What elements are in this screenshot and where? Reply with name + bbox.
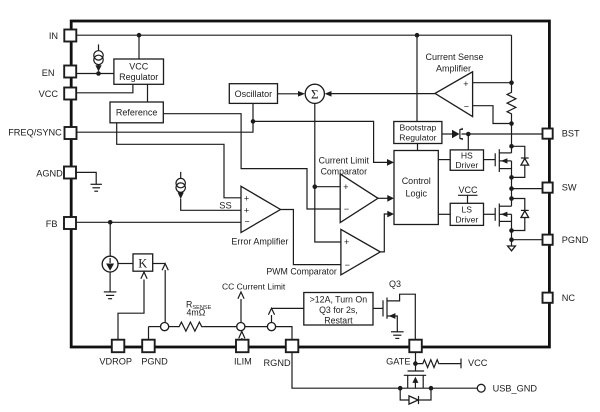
resistor current sense (507, 83, 516, 124)
wire summer to comparators (315, 103, 341, 242)
Reference block (110, 102, 163, 123)
op-amp error amplifier (241, 186, 281, 232)
svg-text:VCC: VCC (459, 185, 479, 195)
diode bootstrap (schottky) (452, 128, 462, 140)
wire sense rail (149, 326, 161, 328)
diode HS body (512, 146, 529, 177)
svg-text:GATE: GATE (386, 356, 410, 366)
summer sigma (305, 84, 324, 103)
node LS drain junction (509, 196, 514, 201)
svg-text:NC: NC (562, 293, 576, 303)
wire clock to control logic (253, 121, 387, 162)
terminal VCC bar (460, 359, 462, 369)
node gate junction (413, 361, 418, 366)
node SW junction (509, 186, 514, 191)
wire ILIM pin arrow (239, 331, 245, 339)
pin VCC (39, 88, 77, 100)
resistor RSENSE (178, 322, 204, 331)
svg-text:+: + (463, 79, 468, 89)
wire RGND to USB rail (292, 352, 477, 388)
wire LS driver to gate (484, 213, 496, 215)
op-amp current sense amplifier (435, 72, 473, 117)
svg-text:Reference: Reference (116, 108, 158, 118)
pin PGND right (543, 235, 589, 245)
svg-text:Q3: Q3 (389, 279, 401, 289)
wire PWM output arrow (380, 211, 394, 252)
resistor gate pull-up (415, 360, 439, 368)
Oscillator block (229, 84, 277, 104)
node FB junction (108, 220, 113, 225)
wire rail segment 3 (204, 326, 237, 328)
ground AGND (91, 184, 102, 191)
pin NC (543, 293, 576, 303)
ground Q3 source (391, 332, 404, 339)
wire rail to RGND (276, 327, 292, 340)
svg-text:Current Limit: Current Limit (319, 156, 370, 166)
svg-text:VCC: VCC (468, 358, 488, 368)
svg-text:Q3 for 2s,: Q3 for 2s, (319, 305, 358, 315)
svg-text:−: − (344, 204, 349, 214)
node clock junction (251, 119, 256, 124)
svg-text:K: K (138, 256, 147, 270)
wire FB to error amplifier (76, 221, 241, 223)
wire sense to HS drain (511, 124, 513, 153)
node terminal 2 (ILIM) (237, 323, 245, 331)
node HS drain junction (509, 144, 514, 149)
wire CL to HS driver (438, 159, 450, 161)
transistor HS MOSFET (495, 149, 511, 177)
svg-text:−: − (345, 260, 350, 270)
diode LS body (512, 199, 529, 231)
node terminal 3 (267, 323, 275, 331)
label VCC LS supply (458, 185, 478, 204)
wire resistor to VCC bar (439, 363, 461, 365)
svg-text:SW: SW (562, 183, 577, 193)
pin PGND bottom (141, 340, 168, 367)
HS Driver block (450, 150, 483, 170)
comparator PWM (341, 229, 380, 275)
svg-text:>12A, Turn On: >12A, Turn On (310, 295, 368, 305)
svg-text:VCC: VCC (39, 89, 59, 99)
wire SS to error amplifier (181, 199, 241, 211)
svg-text:−: − (245, 217, 250, 227)
terminal USB_GND (477, 383, 537, 393)
node HS source junction (509, 175, 514, 180)
wire VCCreg input (138, 35, 140, 59)
pin FB (46, 217, 76, 229)
Control Logic block (394, 151, 438, 225)
pin EN (42, 66, 76, 79)
node summer branch (313, 184, 318, 189)
pin FREQ/SYNC (8, 127, 76, 139)
transistor Q3 (383, 294, 415, 340)
svg-text:ILIM: ILIM (234, 356, 252, 366)
svg-text:Driver: Driver (455, 214, 478, 224)
svg-text:Σ: Σ (311, 86, 319, 101)
label Current Sense Amplifier (425, 52, 483, 73)
svg-text:CC Current Limit: CC Current Limit (222, 282, 286, 292)
svg-text:Oscillator: Oscillator (235, 89, 273, 99)
wire current source to K (118, 263, 133, 265)
wire tap to Q3 logic box (272, 307, 304, 309)
svg-text:Driver: Driver (455, 160, 478, 170)
pin VDROP (99, 340, 132, 367)
svg-text:PWM Comparator: PWM Comparator (266, 267, 336, 277)
node IN-bootstrap junction (415, 33, 420, 38)
svg-text:Bootstrap: Bootstrap (400, 123, 437, 133)
ground LS source (508, 246, 516, 251)
node terminal 1 (161, 323, 169, 331)
current source I-SS (176, 172, 185, 199)
arrow over-current tap (268, 308, 274, 322)
comparator current limit (340, 174, 378, 223)
pin ILIM (234, 340, 252, 367)
IC boundary (71, 21, 549, 347)
svg-text:+: + (244, 205, 249, 215)
LS Driver block (450, 203, 483, 225)
wire CSA minus input (473, 106, 512, 124)
K block (133, 254, 153, 271)
wire CL to LS driver (438, 213, 450, 215)
svg-text:FREQ/SYNC: FREQ/SYNC (8, 128, 62, 138)
wire current source to ground (109, 272, 111, 292)
svg-text:Amplifier: Amplifier (436, 63, 471, 73)
svg-text:BST: BST (562, 129, 580, 139)
wire K output to sense tap (153, 263, 166, 265)
svg-text:SS: SS (219, 201, 231, 211)
wire CLC output arrow (378, 195, 394, 202)
wire Reference to current-limit comparator (163, 114, 340, 209)
svg-text:LS: LS (462, 205, 473, 215)
wire IN net (76, 35, 511, 82)
svg-text:RGND: RGND (264, 358, 291, 368)
svg-text:AGND: AGND (36, 168, 63, 178)
wire rail segment 2 (169, 326, 178, 328)
wire Reference to error amplifier (117, 123, 241, 198)
svg-text:Logic: Logic (405, 189, 427, 199)
VCC Regulator U-vccreg (114, 59, 164, 84)
wire GATE pin to external gate node (415, 352, 417, 371)
arrow CC current limit (238, 292, 244, 322)
wire AGND pin (76, 172, 96, 184)
svg-text:+: + (244, 193, 249, 203)
svg-text:Regulator: Regulator (119, 72, 158, 82)
wire EN net (76, 73, 114, 75)
svg-text:+: + (344, 237, 349, 247)
svg-text:HS: HS (461, 151, 473, 161)
wire CSA output to summer (332, 93, 436, 95)
svg-text:PGND: PGND (141, 356, 168, 366)
wire bootstrap input (416, 35, 418, 121)
svg-text:VDROP: VDROP (99, 356, 132, 366)
node EN junction (96, 71, 101, 76)
node PGND junction (509, 237, 514, 242)
svg-text:EN: EN (42, 68, 55, 78)
node CSA minus junction (509, 121, 514, 126)
Bootstrap Regulator block (394, 122, 442, 144)
wire to CLC plus input (315, 186, 340, 188)
svg-text:USB_GND: USB_GND (493, 383, 538, 393)
wire HS driver to gate (484, 159, 496, 161)
svg-text:VCC: VCC (129, 62, 149, 72)
svg-text:Regulator: Regulator (399, 133, 436, 143)
wire PGND net (512, 231, 543, 247)
wire diode to BST pin (462, 133, 543, 135)
svg-text:4mΩ: 4mΩ (187, 308, 206, 318)
block Q3 restart logic (304, 293, 373, 326)
current source I-FB (102, 222, 118, 272)
wire to HS driver top (467, 134, 469, 150)
wire oscillator to summer (278, 93, 300, 95)
node USB rail right (429, 386, 434, 391)
wire VCC pin to regulator (76, 84, 133, 93)
arrow sense tap up (162, 264, 168, 323)
label Current Limit Comparator (319, 156, 370, 177)
svg-text:+: + (343, 182, 348, 192)
svg-text:PGND: PGND (562, 235, 589, 245)
wire box to Q3 gate (373, 307, 383, 309)
node USB rail left (398, 386, 403, 391)
node BST-HSdriver junction (466, 132, 471, 137)
wire bootstrap to BST (442, 133, 452, 135)
transistor external USB FET (404, 371, 426, 388)
node IN-VCCreg junction (137, 33, 142, 38)
svg-text:Error Amplifier: Error Amplifier (231, 236, 288, 246)
svg-text:Control: Control (402, 176, 431, 186)
svg-text:FB: FB (46, 219, 58, 229)
node LS source junction (509, 228, 514, 233)
pin SW (543, 183, 577, 193)
node CSA plus junction (509, 80, 514, 85)
svg-text:Restart: Restart (324, 316, 353, 326)
wire error amp out to PWM comparator (281, 210, 341, 265)
wire rail segment 4 (245, 326, 268, 328)
pin GATE (386, 340, 422, 367)
svg-text:Current Sense: Current Sense (425, 52, 483, 62)
wire VDROP to K input arrow (118, 272, 147, 340)
diode external parallel (400, 388, 431, 404)
wire CSA plus input (473, 82, 512, 84)
transistor LS MOSFET (495, 199, 511, 231)
wire VCCreg to Reference (147, 84, 149, 102)
wire PGND to sense rail (148, 327, 150, 340)
current source I-EN (94, 44, 103, 71)
wire FREQ/SYNC to oscillator (77, 103, 254, 132)
pin RGND (264, 340, 299, 368)
ground FB current source (104, 292, 117, 299)
pin AGND (36, 167, 76, 179)
pin BST (543, 129, 581, 139)
svg-text:IN: IN (49, 31, 58, 41)
wire bootstrap to control logic (417, 144, 419, 151)
wire SW net (512, 177, 543, 198)
pin IN (49, 30, 76, 42)
svg-text:Comparator: Comparator (321, 167, 368, 177)
svg-text:−: − (464, 102, 469, 112)
